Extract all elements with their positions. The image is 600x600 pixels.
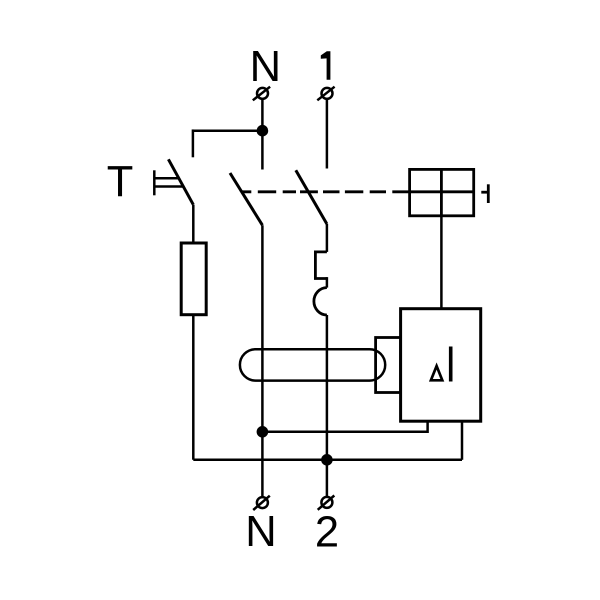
N pole switch blade [230, 173, 262, 225]
wire: resistor down to bottom rail [192, 315, 195, 460]
wire: solenoid down to detector box [440, 216, 443, 309]
current transformer core (stadium) [240, 349, 385, 380]
magnetic release (half-circle bump) [314, 288, 327, 315]
test switch blade [168, 159, 193, 204]
trip solenoid vertical divider [440, 169, 443, 215]
I symbol (bar) [449, 347, 453, 382]
node C (junction dot on N wire) [257, 426, 269, 438]
svg-text:2: 2 [315, 509, 339, 557]
wire: test branch down to test contact [192, 129, 195, 157]
detector relay box (delta-I) [401, 309, 481, 422]
wire: N terminal down to node A [261, 99, 264, 131]
terminal 2 bottom (circle with slash) [318, 496, 335, 510]
thermal overload release (square jog) [315, 252, 327, 279]
wire: node B down to terminal 2 [326, 460, 329, 497]
label 1 (top terminal) [321, 51, 331, 80]
delta symbol [431, 366, 442, 380]
terminal 1 top (circle with slash) [317, 87, 334, 101]
wire: detector box bottom right down to bottom rail [461, 421, 464, 460]
test button actuator (push rod) [154, 170, 182, 195]
wire: pole 1 pivot down to overload release [326, 224, 329, 252]
wire: N pole pivot down through CT to terminal N bottom [261, 225, 264, 497]
terminal N bottom (circle with slash) [253, 496, 270, 510]
svg-text:T: T [107, 158, 134, 206]
actuator end bar [487, 184, 490, 203]
wire: detector box bottom left to node C rail [262, 421, 427, 432]
wire: test switch pivot to resistor [192, 205, 195, 243]
svg-text:N: N [245, 508, 276, 556]
wire: 1 terminal down to pole 1 fixed contact [326, 99, 329, 169]
wire: node A down to N pole fixed contact [261, 131, 264, 170]
secondary winding box [376, 338, 401, 393]
resistor (test resistor) [181, 243, 206, 315]
actuator link line [481, 191, 488, 194]
trip solenoid box [410, 169, 474, 215]
dashed mechanical linkage [242, 190, 410, 193]
wire: node A left to test branch [193, 129, 263, 132]
svg-text:N: N [250, 43, 281, 91]
node A (junction dot on N wire) [257, 125, 269, 137]
bottom rail wire [193, 459, 462, 462]
terminal N top (circle with slash) [253, 87, 270, 101]
node B (junction dot on pole 2 wire) [321, 454, 333, 466]
trip solenoid horizontal divider [410, 190, 474, 193]
pole 1 switch blade [296, 170, 327, 224]
wire: between releases [326, 277, 329, 288]
wire: pole 1 down through CT to node B [326, 315, 329, 460]
